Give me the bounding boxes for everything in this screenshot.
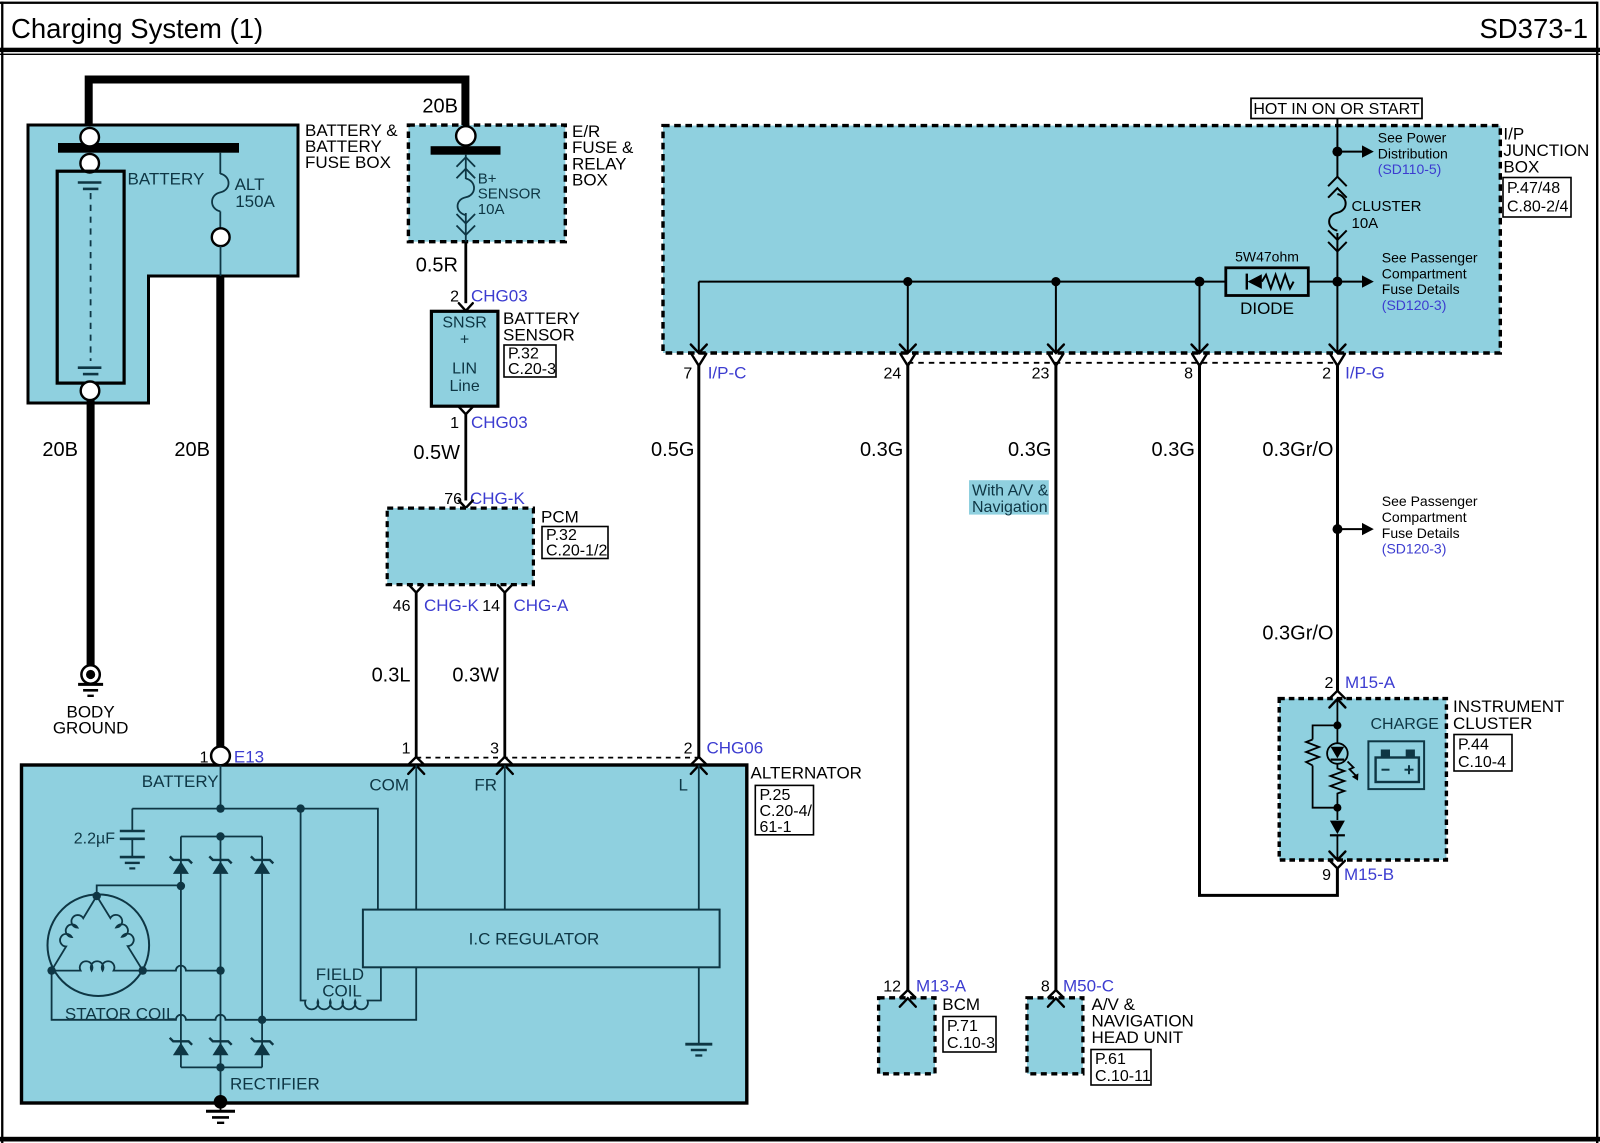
stator left vertex link with hops to COM [52, 967, 417, 1020]
cluster pin 2 M15-A [1330, 691, 1345, 698]
body ground symbol [81, 665, 99, 683]
rectifier output stem to ground [220, 1067, 222, 1101]
svg-text:M13-A: M13-A [916, 977, 967, 996]
alternator ground symbol [220, 1104, 222, 1110]
svg-text:P.47/48: P.47/48 [1507, 180, 1560, 197]
svg-text:CHG-K: CHG-K [424, 596, 479, 615]
alternator internal: E13 stem [220, 765, 222, 808]
node dot see power distribution [1332, 147, 1342, 157]
ref box P.44 C.10-4 [1454, 735, 1512, 772]
svg-text:ALTERNATOR: ALTERNATOR [751, 764, 862, 783]
svg-text:+: + [460, 332, 469, 349]
connector circle below bus bar [80, 154, 99, 173]
svg-text:C.20-4/: C.20-4/ [760, 803, 813, 820]
wire [219, 211, 221, 228]
svg-text:C.10-4: C.10-4 [1458, 754, 1506, 771]
svg-text:61-1: 61-1 [760, 819, 792, 836]
svg-text:0.5R: 0.5R [416, 255, 458, 277]
svg-text:FR: FR [474, 776, 497, 795]
svg-text:0.3G: 0.3G [860, 439, 903, 461]
wire 0.3W PCM to alternator FR [503, 593, 506, 757]
BCM box [879, 998, 935, 1074]
fuse CLUSTER 10A [1328, 177, 1347, 187]
svg-text:5W47ohm: 5W47ohm [1235, 249, 1299, 265]
svg-text:PCM: PCM [541, 508, 579, 527]
svg-text:Line: Line [449, 378, 479, 395]
svg-text:20B: 20B [42, 439, 78, 461]
svg-text:12: 12 [883, 979, 901, 996]
thick wire battery box to body ground [87, 400, 95, 665]
LED emission flash [1348, 762, 1357, 776]
diode D2 (top row) [209, 856, 231, 863]
svg-text:LIN: LIN [452, 361, 477, 378]
svg-text:(SD120-3): (SD120-3) [1382, 541, 1447, 557]
alternator pin 1 E13 circle [211, 747, 230, 766]
svg-text:1: 1 [200, 750, 209, 767]
ref box P.32 C.20-1/2 [542, 527, 608, 559]
svg-text:23: 23 [1032, 366, 1050, 383]
charge LED indicator [1327, 743, 1348, 764]
ref box P.61 C.10-11 [1091, 1050, 1151, 1086]
I/P pin 2 I/P-G [1330, 345, 1346, 354]
svg-text:2: 2 [684, 741, 693, 758]
highlight note With A/V & Navigation [969, 480, 1049, 514]
A/V & navigation head unit box [1027, 998, 1083, 1074]
battery box bus bar [58, 143, 239, 153]
connector V at battery sensor bottom [459, 407, 473, 414]
diode D6 (bottom row) [251, 1038, 273, 1045]
svg-text:P.61: P.61 [1095, 1051, 1126, 1068]
svg-text:0.3L: 0.3L [372, 665, 411, 687]
fuse ALT connector circle [212, 228, 230, 246]
alternator box [22, 765, 747, 1103]
svg-text:20B: 20B [422, 96, 458, 118]
svg-text:2: 2 [1324, 675, 1333, 692]
svg-text:I/P-C: I/P-C [708, 364, 747, 383]
stator top vertex link to rectifier [97, 885, 181, 896]
connector V at PCM bottom pin 46 [409, 585, 423, 592]
svg-text:Compartment: Compartment [1382, 509, 1467, 525]
wire 0.3G pin24 to BCM [906, 366, 909, 991]
E/R fuse & relay box [408, 125, 565, 242]
alternator pin 2 L (CHG06) [691, 757, 706, 764]
svg-text:0.3G: 0.3G [1008, 439, 1051, 461]
wire 0.5G pin7 to alternator L [697, 366, 700, 757]
page bottom border [0, 1137, 1600, 1142]
svg-text:20B: 20B [174, 439, 210, 461]
svg-text:C.10-3: C.10-3 [947, 1035, 995, 1052]
wire [220, 246, 222, 276]
svg-text:150A: 150A [235, 192, 275, 211]
cluster diode [1330, 821, 1345, 835]
svg-text:FUSE BOX: FUSE BOX [305, 153, 391, 172]
svg-text:10A: 10A [478, 201, 505, 218]
capacitor ground [120, 856, 145, 859]
svg-text:Navigation: Navigation [972, 499, 1048, 516]
dashed connector line under I/P box [908, 362, 1338, 364]
fuse ALT 150A S-curve [212, 174, 229, 212]
svg-text:0.5W: 0.5W [413, 442, 460, 464]
connector V at PCM top [459, 501, 473, 508]
svg-text:HOT IN ON OR START: HOT IN ON OR START [1253, 101, 1419, 118]
svg-text:1: 1 [450, 415, 459, 432]
arrow to see passenger (upper) [1342, 281, 1362, 283]
node dot see passenger (lower) [1333, 524, 1343, 534]
svg-text:CHG03: CHG03 [471, 287, 528, 306]
arrow to see power distribution [1342, 151, 1362, 153]
svg-text:RECTIFIER: RECTIFIER [230, 1075, 320, 1094]
svg-text:CHARGE: CHARGE [1371, 716, 1439, 733]
fuse ALT 150A wire [219, 153, 221, 174]
battery symbol top plates [78, 181, 102, 184]
rectifier columns [180, 837, 182, 1068]
svg-text:BCM: BCM [942, 995, 980, 1014]
svg-text:9: 9 [1322, 867, 1331, 884]
diode D1 (top row) [170, 856, 274, 1055]
dashed connector line above alternator [416, 757, 699, 759]
PCM box [387, 508, 533, 584]
svg-text:M15-B: M15-B [1344, 865, 1394, 884]
wire 0.3L PCM to alternator COM [415, 593, 418, 757]
svg-text:See Passenger: See Passenger [1382, 250, 1478, 266]
svg-text:C.80-2/4: C.80-2/4 [1507, 199, 1568, 216]
wire 0.5W battery sensor to PCM [464, 414, 467, 500]
cluster series resistor [1330, 764, 1344, 820]
BCM pin 12 M13-A [900, 990, 915, 997]
alternator internal top horizontal wire [132, 809, 378, 910]
svg-text:(SD110-5): (SD110-5) [1378, 161, 1442, 177]
svg-text:P.25: P.25 [760, 787, 791, 804]
title separator thin line [0, 54, 1600, 55]
cluster pin 9 M15-B [1329, 852, 1345, 861]
charge battery icon outer box [1368, 741, 1424, 789]
field coil [301, 809, 381, 1010]
wire 0.3G pin23 to A/V unit [1054, 366, 1057, 991]
ref box P.25 C.20-4/ 61-1 [755, 785, 813, 834]
svg-text:SNSR: SNSR [442, 315, 486, 332]
svg-text:8: 8 [1184, 366, 1193, 383]
stator coil triangle with windings [44, 891, 97, 970]
svg-text:C.10-11: C.10-11 [1095, 1068, 1151, 1085]
svg-text:I/P-G: I/P-G [1345, 364, 1385, 383]
svg-text:BOX: BOX [572, 171, 608, 190]
svg-text:14: 14 [482, 598, 500, 615]
instrument cluster box [1279, 699, 1446, 860]
svg-text:SENSOR: SENSOR [503, 326, 575, 345]
svg-text:2: 2 [1322, 366, 1331, 383]
svg-text:Compartment: Compartment [1382, 265, 1467, 281]
page right border [1596, 2, 1598, 1143]
svg-text:DIODE: DIODE [1240, 299, 1294, 318]
stator coil circle [48, 894, 150, 996]
I.C regulator box [363, 910, 720, 968]
diode D4 (bottom row) [170, 1038, 192, 1045]
ref box P.71 C.10-3 [943, 1017, 996, 1053]
svg-text:46: 46 [393, 598, 411, 615]
svg-text:10A: 10A [1352, 215, 1379, 232]
alternator case ground dot [214, 1095, 228, 1109]
svg-text:See Power: See Power [1378, 130, 1447, 146]
battery sensor box SNSR [431, 311, 498, 406]
title separator thick line [0, 48, 1600, 52]
junction dots on horizontal wire [903, 277, 912, 286]
svg-text:E13: E13 [234, 748, 264, 767]
cluster internal stem [1336, 699, 1338, 744]
svg-text:P.32: P.32 [546, 527, 577, 544]
svg-text:0.3W: 0.3W [452, 665, 499, 687]
E/R connector circle [456, 126, 475, 145]
diode symbol (pointing left) [1246, 274, 1248, 290]
diode/resistor component box 5W47ohm [1226, 268, 1309, 296]
svg-text:M15-A: M15-A [1345, 673, 1396, 692]
svg-text:CHG-K: CHG-K [470, 489, 525, 508]
resistor zigzag [1262, 275, 1294, 289]
rectifier top rail [181, 836, 262, 838]
A/V pin 8 M50-C [1048, 990, 1063, 997]
rectifier bottom rail [181, 1066, 262, 1068]
connector V at PCM bottom pin 14 [498, 585, 512, 592]
svg-text:0.3Gr/O: 0.3Gr/O [1262, 623, 1333, 645]
svg-text:Fuse Details: Fuse Details [1382, 525, 1460, 541]
alternator pin 1 COM [409, 757, 424, 764]
svg-text:P.32: P.32 [508, 346, 539, 363]
junction dots on top wire [216, 804, 224, 812]
I/P pin 8 [1192, 345, 1208, 354]
svg-text:SD373-1: SD373-1 [1479, 13, 1588, 44]
svg-text:CHG03: CHG03 [471, 413, 528, 432]
svg-text:See Passenger: See Passenger [1382, 493, 1478, 509]
arrow to see passenger (lower) [1342, 528, 1362, 530]
svg-text:HEAD UNIT: HEAD UNIT [1092, 1028, 1184, 1047]
E/R bus bar [431, 146, 501, 155]
battery symbol bottom plates [78, 366, 102, 369]
svg-text:C.20-3: C.20-3 [508, 361, 556, 378]
diode D3 (top row) [251, 856, 273, 863]
cluster shunt resistor branch [1313, 725, 1338, 807]
svg-text:L: L [679, 776, 688, 795]
L ground symbol [685, 1043, 712, 1046]
svg-text:BATTERY: BATTERY [142, 772, 219, 791]
svg-text:COIL: COIL [322, 982, 362, 1001]
stator triangle vertex dots [93, 892, 101, 900]
svg-text:BOX: BOX [1503, 158, 1539, 177]
svg-text:CHG06: CHG06 [707, 739, 764, 758]
stator right vertex link with hop [143, 966, 221, 971]
svg-text:GROUND: GROUND [53, 719, 129, 738]
I/P internal verticals to pins [698, 282, 700, 353]
alternator pin 3 FR [497, 757, 512, 764]
L internal wire [698, 765, 700, 909]
I/P junction box [663, 126, 1500, 353]
svg-text:24: 24 [884, 366, 902, 383]
diode D5 (bottom row) [209, 1038, 231, 1045]
charge battery icon [1381, 750, 1390, 758]
svg-text:With A/V &: With A/V & [972, 483, 1049, 500]
svg-text:P.44: P.44 [1458, 737, 1489, 754]
I/P internal horizontal wire [699, 281, 1338, 283]
fuse B+ SENSOR 10A [465, 155, 467, 179]
wire 0.3Gr/O pin2 to cluster M15-A [1336, 366, 1339, 691]
svg-text:8: 8 [1041, 979, 1050, 996]
svg-text:0.3G: 0.3G [1152, 439, 1195, 461]
I/P pin 23 [1048, 345, 1064, 354]
svg-text:Distribution: Distribution [1378, 145, 1448, 161]
ref box P.47/48 C.80-2/4 [1503, 178, 1571, 218]
I/P pin 24 [900, 345, 916, 354]
wire 0.5R E/R box to battery sensor [464, 242, 467, 304]
thick battery supply wire (top loop) [89, 80, 466, 128]
svg-text:(SD120-3): (SD120-3) [1382, 297, 1447, 313]
page left border [1, 2, 3, 1143]
svg-text:3: 3 [490, 741, 499, 758]
battery cell inner box [57, 171, 124, 383]
page top border [0, 2, 1597, 4]
svg-text:Fuse Details: Fuse Details [1382, 281, 1460, 297]
connector circle above bus bar [80, 128, 99, 147]
svg-text:2.2µF: 2.2µF [74, 831, 115, 848]
connector V at battery sensor top [459, 303, 473, 311]
svg-text:0.5G: 0.5G [651, 439, 694, 461]
svg-text:CLUSTER: CLUSTER [1352, 198, 1422, 215]
svg-text:7: 7 [683, 366, 692, 383]
svg-text:Charging System (1): Charging System (1) [11, 13, 263, 44]
svg-text:0.3Gr/O: 0.3Gr/O [1262, 439, 1333, 461]
ref box P.32 C.20-3 [504, 345, 556, 377]
svg-text:P.71: P.71 [947, 1018, 978, 1035]
svg-text:CHG-A: CHG-A [514, 596, 569, 615]
svg-text:CLUSTER: CLUSTER [1453, 714, 1532, 733]
svg-text:COM: COM [369, 776, 409, 795]
FR internal wire [504, 765, 506, 909]
svg-text:M50-C: M50-C [1063, 977, 1114, 996]
svg-text:BATTERY: BATTERY [128, 170, 205, 189]
capacitor 2.2uF [131, 809, 133, 830]
COM internal wire [415, 765, 417, 909]
thick wire ALT fuse to alternator E13 [216, 276, 224, 747]
HOT IN ON OR START tag [1251, 98, 1422, 118]
battery symbol dashed core [90, 193, 92, 361]
battery & battery fuse box (L-shape) [28, 125, 298, 403]
I/P pin 7 I/P-C [691, 345, 707, 354]
svg-text:I.C REGULATOR: I.C REGULATOR [469, 930, 600, 949]
wire from HOT tag down through cluster fuse [1336, 119, 1338, 179]
svg-text:1: 1 [402, 741, 411, 758]
svg-text:C.20-1/2: C.20-1/2 [546, 543, 607, 560]
wire 0.3G pin8 to cluster M15-B [1200, 366, 1338, 896]
battery box bottom connector circle [81, 382, 100, 401]
